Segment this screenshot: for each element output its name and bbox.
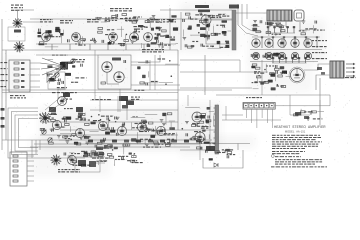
wire right drop [289, 95, 291, 115]
ground band5 [50, 129, 54, 131]
wire horiz b [131, 84, 180, 86]
label tape head input [142, 49, 164, 52]
resistor R pwr7 [93, 152, 98, 154]
wire horiz d [222, 114, 243, 116]
label 117VAC [92, 158, 109, 159]
resistor R21 cathode [69, 44, 71, 50]
label R36 [63, 99, 72, 100]
wire vert a [94, 50, 96, 100]
label stage 3 [87, 19, 99, 22]
plug P1 [96, 147, 103, 151]
component blob band12 [142, 121, 147, 124]
label hanging cluster [131, 97, 140, 100]
wire power run2 [30, 146, 190, 148]
tube V23 [156, 126, 165, 135]
resistor R p-loop2 [227, 152, 232, 154]
capacitor C m-left19 [276, 71, 278, 74]
resistor R band33 [76, 143, 81, 145]
tube V30 output row2 [252, 52, 259, 59]
capacitor C o-left1 [203, 138, 205, 141]
label note line 5 [272, 143, 318, 146]
component socket X 3 [293, 54, 297, 58]
component blob o-left4 [207, 107, 211, 110]
wire tap 3 [27, 170, 34, 172]
node dot outblock4 [287, 26, 289, 28]
component blob tr-driver7 [197, 24, 200, 27]
capacitor C tr-driver13 [223, 25, 225, 28]
resistor R band32 [100, 124, 105, 126]
wire row 3 [30, 74, 40, 76]
tube V14 output right [291, 69, 304, 82]
wire stub band10 [176, 133, 178, 140]
resistor R band7 [167, 113, 172, 115]
wire tap 0 [27, 155, 34, 157]
node dot tr-driver10 [204, 36, 206, 38]
wire riser preamp [169, 8, 171, 50]
component blob band25 [91, 122, 96, 125]
label band4 [76, 118, 86, 119]
label tr-driver1 [219, 16, 229, 17]
component blob tr-driver15 [222, 31, 227, 33]
component blob band71 [162, 113, 166, 116]
label input 4 [1, 80, 8, 81]
component blob band4 [105, 132, 110, 135]
capacitor C fan0 [47, 73, 49, 76]
node dot tl-chain51 [159, 29, 161, 31]
label outblock0 [299, 30, 306, 31]
label phase inverter 2 [198, 10, 210, 13]
node dot tl-right5 [169, 60, 171, 62]
label tr-driver0 [219, 47, 229, 48]
component blob tr-driver31 [188, 28, 192, 30]
wire stub pwr3 [98, 161, 100, 165]
label left col text [10, 95, 26, 98]
capacitor C band21 [95, 145, 97, 148]
component pin blob 1 [272, 36, 274, 38]
switch SW3 rotary box [10, 152, 27, 186]
wire stub band1 [165, 114, 167, 125]
component blob o-left2 [204, 142, 210, 144]
wire output row2 bus [250, 61, 318, 63]
component blob band8 [150, 135, 155, 138]
wire control drop [57, 89, 59, 100]
wire shielded loop 3 [15, 115, 38, 151]
capacitor C tr-driver24 [224, 33, 226, 36]
label s-low2 [115, 159, 126, 160]
wire pwr riser 1 [31, 140, 33, 158]
wire power run [34, 143, 200, 145]
wire TS1 pin 4 [261, 109, 263, 118]
wire row 2 [30, 68, 40, 70]
capacitor C fan5 [62, 81, 64, 84]
capacitor C tl-right4 [146, 82, 148, 85]
resistor R outblock13 [266, 32, 271, 34]
resistor R tl-upper9 [145, 21, 150, 23]
component blob pwr10 [94, 153, 99, 157]
resistor R band70 [148, 122, 153, 124]
label fan2 [57, 87, 67, 88]
resistor R pwr3 [87, 153, 92, 155]
component blob s-low6 [129, 153, 132, 155]
wire stub band2 [155, 126, 157, 136]
tube V9 output [252, 39, 260, 47]
wire stub tr-driver4 [206, 31, 208, 41]
wire band bus2 [40, 134, 178, 136]
label right of fan [72, 59, 85, 62]
component socket X 4 [306, 54, 310, 58]
capacitor C outblock14 [276, 24, 278, 27]
wire driver to xfmr [211, 19, 232, 21]
resistor R50 [101, 82, 106, 84]
label m-left3 [254, 71, 260, 72]
wire stub tl-chain10 [141, 43, 143, 48]
resistor R band37 [51, 119, 56, 121]
component blob tr-driver30 [214, 33, 218, 36]
wire feedback line [222, 119, 281, 121]
component blob outrow5 [273, 53, 278, 56]
wire stub tl-upper0 [175, 27, 177, 28]
node dot tl-chain45 [146, 26, 148, 28]
wire mid cross 1 [90, 99, 178, 101]
resistor R25 cathode [143, 44, 145, 50]
label band15 [101, 116, 113, 117]
wire stub tl-upper3 [149, 22, 151, 28]
label note line 7 [272, 147, 305, 150]
transformer T3 output [330, 61, 344, 78]
transformer T2 secondary [294, 10, 304, 21]
resistor R o-left12 [197, 147, 202, 149]
resistor R band34 [65, 124, 70, 126]
wire vert c [154, 55, 156, 90]
component blob tr-driver19 [225, 45, 229, 48]
label o-left3 [190, 138, 202, 139]
resistor R o-left3 [193, 136, 198, 138]
wire C1 right [23, 21, 40, 23]
wire output riser [319, 78, 321, 125]
tube V11 output [278, 39, 286, 47]
component blob tl-chain23 [151, 42, 157, 44]
resistor R band20 [142, 120, 147, 122]
capacitor C tl-chain6 [102, 40, 104, 43]
wire row 4 [30, 80, 40, 82]
capacitor C12 [124, 60, 126, 63]
component blob tl-chain31 [55, 27, 59, 30]
capacitor C tl-chain43 [161, 42, 163, 45]
label tl-chain3 [157, 36, 164, 37]
label note line 2 [272, 136, 321, 139]
resistor R s-low4 [130, 160, 135, 162]
node dot band40 [115, 121, 117, 123]
capacitor C band47 [122, 124, 124, 127]
wire stub band15 [169, 120, 175, 122]
component blob tl-chain47 [55, 29, 60, 32]
resistor R pwr12 [72, 161, 77, 163]
tube V19 [75, 128, 84, 137]
resistor R band65 [105, 128, 110, 130]
wire haze region 2 [248, 20, 326, 62]
component blob tr-driver3 [205, 35, 211, 38]
label tl-upper4 [133, 26, 145, 27]
label note line 8 [272, 150, 305, 153]
ground q-top0 [306, 118, 310, 120]
capacitor C tr-driver2 [185, 44, 187, 47]
wire TS1 pin 2 [251, 109, 253, 123]
node dot band17 [109, 120, 111, 122]
label outrow0 [276, 56, 285, 57]
label band3 [43, 118, 54, 119]
resistor R37 [51, 77, 56, 79]
label tr-driver4 [216, 25, 225, 26]
node dot m-left17 [258, 75, 260, 77]
label p-loop1 [222, 149, 233, 150]
label tube column 1 [312, 46, 327, 47]
component blob tr-driver9 [206, 24, 209, 27]
capacitor C tl-chain25 [93, 38, 95, 41]
capacitor C o-left14 [208, 115, 210, 118]
ground band1 [83, 135, 87, 137]
resistor R band3 [154, 143, 159, 145]
label terminal strip [246, 97, 262, 98]
wire scan speckle [0, 2, 352, 172]
label band10 [65, 138, 71, 139]
label stage 6 [147, 19, 160, 22]
label tl-chain10 [90, 40, 96, 41]
capacitor C p-loop4 [227, 155, 229, 158]
wire riser mid [177, 50, 179, 130]
potentiometer R35 bass [71, 59, 75, 63]
wire TS1 pin 3 [256, 109, 258, 128]
label tr-driver7 [190, 19, 197, 20]
wire vert e [225, 106, 227, 120]
label tl-upper0 [151, 19, 162, 20]
wire stub o-left5 [204, 115, 206, 122]
label tr-driver10 [192, 41, 198, 42]
wire stub band11 [145, 114, 158, 116]
resistor R band58 [40, 128, 45, 130]
resistor R outblock2 [279, 26, 284, 28]
ground band22 [86, 142, 90, 144]
wire P loop [203, 150, 243, 168]
wire stub o-left0 [211, 142, 214, 144]
resistor R m-left16 [281, 86, 286, 88]
resistor R outblock12 [281, 30, 286, 32]
wire stub pwr4 [68, 154, 74, 156]
capacitor C p-loop0 [205, 150, 207, 153]
component blob s-low11 [114, 147, 118, 150]
node dot tl-right3 [171, 75, 173, 77]
wire stub tr-driver0 [208, 19, 210, 31]
label jack 1 [1, 108, 5, 111]
wire haze region 7 [0, 55, 32, 95]
wire stub band8 [131, 122, 133, 129]
label heater volts [143, 147, 161, 148]
ground tl-chain41 [157, 45, 161, 47]
label tl-chain9 [133, 31, 140, 32]
label band14 [132, 116, 137, 117]
capacitor C tl-upper1 [96, 17, 98, 20]
wire stub tl-right3 [138, 62, 150, 64]
resistor R m-left18 [264, 81, 269, 83]
capacitor C band26 [42, 128, 44, 131]
ground pwr0 [68, 157, 72, 159]
resistor R42 divider [14, 74, 19, 76]
component blob band36 [110, 130, 115, 133]
component blob tl-right2 [137, 66, 140, 69]
resistor R44 divider [14, 86, 19, 88]
transistor Q1 bias [206, 146, 215, 151]
wire left rail 2 [5, 50, 7, 140]
capacitor C tl-chain29 [39, 29, 41, 32]
wire T3 bottom [316, 75, 330, 90]
label note marker circle [271, 155, 274, 158]
component blob pwr5 [84, 152, 88, 155]
wire stub tr-driver7 [219, 42, 221, 48]
wire vert d [187, 95, 189, 106]
capacitor C outrow2 [271, 54, 273, 57]
resistor R q-top4 [294, 114, 299, 116]
resistor R m-left15 [278, 75, 283, 77]
wire mid sparse 2 [216, 94, 250, 96]
wire row 5 [30, 86, 40, 88]
node dot m-left20 [277, 84, 279, 86]
ground tl-upper3 [135, 20, 139, 22]
resistor R band53 [108, 145, 113, 147]
resistor R outrow7 [254, 54, 259, 56]
wire TS1 pin 6 [272, 109, 274, 128]
component blob tl-chain28 [156, 27, 161, 30]
capacitor C3 multi-section [39, 112, 51, 124]
label m-left5 [263, 81, 272, 82]
label o-left6 [201, 128, 209, 129]
ground band28 [66, 141, 70, 143]
wire socket pin 0 [261, 38, 263, 48]
ground tl-chain9 [82, 39, 86, 41]
label input section [11, 5, 23, 11]
component blob p-loop1 [225, 149, 230, 151]
resistor R o-left7 [206, 120, 211, 122]
label band21 [84, 136, 90, 137]
component blob band31 [66, 117, 72, 120]
node dot tr-driver20 [198, 32, 200, 34]
resistor R tl-chain1 [162, 30, 167, 32]
label band19 [167, 139, 174, 140]
label m-left0 [254, 73, 264, 74]
ground tl-chain8 [131, 41, 135, 43]
wire tap 4 [27, 175, 34, 177]
tube V13 output [304, 39, 312, 47]
wire stub tr-driver5 [208, 47, 222, 49]
node dot band23 [91, 116, 93, 118]
capacitor C band59 [116, 133, 118, 136]
capacitor C fan8 [59, 67, 61, 70]
label heater 2 [97, 148, 109, 149]
label band2 [140, 139, 151, 140]
component blob tl-chain34 [132, 36, 137, 39]
wire O cross [180, 149, 214, 151]
node dot tr-driver5 [212, 46, 214, 48]
component blob outblock6 [253, 24, 258, 26]
capacitor C tl-chain13 [157, 40, 159, 43]
wire stub s-low2 [123, 143, 125, 155]
resistor R114 tap [13, 175, 18, 177]
label pwr0 [73, 165, 83, 166]
label stage 7 [163, 19, 176, 22]
switch SW4 [99, 152, 104, 155]
label tl-upper3 [133, 16, 142, 17]
component blob tr-driver8 [217, 41, 221, 44]
capacitor C band57 [163, 129, 165, 132]
label band1 [64, 136, 75, 137]
label tl-upper2 [156, 22, 163, 23]
ground band51 [160, 120, 164, 122]
label band7 [49, 114, 57, 115]
label note line 12 [275, 160, 322, 163]
resistor R outblock11 [301, 33, 306, 35]
wire TS1 right [275, 95, 331, 106]
component blob band19 [84, 136, 89, 139]
capacitor C tr-driver12 [207, 36, 209, 39]
node dot tl-chain19 [126, 34, 128, 36]
resistor R tr-driver14 [188, 46, 193, 48]
wire TS1 pin 1 [246, 109, 248, 118]
label stage 2 [60, 20, 73, 23]
wire haze region 6 [30, 138, 110, 176]
tube V10 output [265, 39, 273, 47]
wire diag input [45, 96, 62, 110]
component blob tl-chain0 [45, 30, 51, 33]
resistor R tl-upper6 [105, 20, 110, 22]
wire T2 top [236, 12, 267, 14]
component socket X 2 [280, 54, 284, 58]
component pin blob 2 [283, 36, 285, 38]
component blob fan9 [60, 62, 65, 65]
ground tl-chain12 [45, 38, 49, 40]
label speaker [345, 77, 356, 78]
wire stub band6 [170, 122, 172, 130]
component blob outblock8 [267, 22, 273, 25]
wire xfmr drop pair [237, 4, 239, 25]
resistor R band52 [153, 141, 158, 143]
label tl-chain1 [105, 34, 116, 35]
label p-loop2 [227, 154, 236, 155]
svg-text:MODEL AA-151: MODEL AA-151 [285, 131, 306, 134]
wire haze region 9 [85, 136, 255, 148]
capacitor C band60 [52, 128, 54, 131]
label jack 3 [1, 125, 5, 128]
wire right col [261, 60, 263, 95]
wire stub m-left5 [275, 70, 277, 81]
node dot band13 [100, 119, 102, 121]
wire haze region 0 [35, 15, 180, 52]
resistor R tl-upper7 [132, 21, 137, 23]
transformer T2 [267, 10, 292, 21]
component blob tr-driver27 [200, 27, 206, 30]
tube V3 [109, 33, 118, 42]
wire stub s-low3 [114, 160, 116, 166]
ground outblock15 [253, 20, 257, 22]
label tr-driver8 [218, 33, 225, 34]
label tl-right2 [134, 90, 144, 91]
tube V16 [195, 132, 205, 142]
resistor R s-low9 [123, 144, 128, 146]
resistor R outblock9 [278, 25, 283, 27]
wire socket pin 3 [294, 38, 296, 48]
wire riser driver [204, 55, 206, 95]
wire tap 2 [27, 165, 34, 167]
label tl-right1 [158, 58, 166, 59]
wire output row bus [250, 49, 322, 51]
wire heater bus bottom [2, 139, 212, 141]
